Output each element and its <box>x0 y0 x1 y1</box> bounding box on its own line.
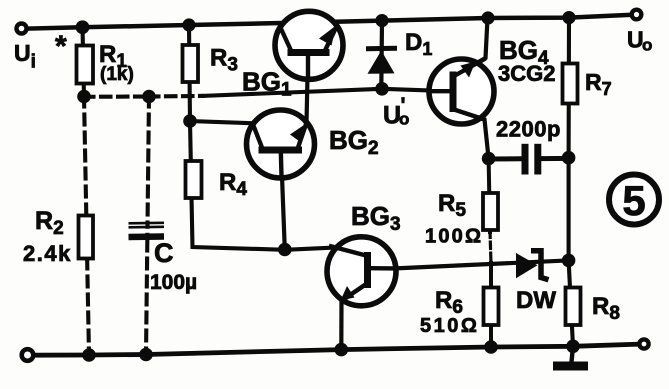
terminal bottom left <box>22 349 34 361</box>
wire 2200p left lead <box>489 156 520 161</box>
node bottom rail R8 <box>566 340 580 354</box>
wire U0' line to D1 and BG4 base <box>203 89 452 96</box>
capacitor 2200p plates <box>525 144 538 175</box>
resistor R5 <box>483 193 498 230</box>
wire BG1 base to BG2 <box>307 53 309 124</box>
svg-text:C: C <box>154 238 174 268</box>
svg-text:o: o <box>399 110 409 129</box>
wire R3 lead <box>189 25 190 121</box>
terminal Uo output <box>632 10 642 20</box>
node bottom rail R2 <box>82 348 96 362</box>
node BG2 base R4 <box>278 243 292 257</box>
svg-text:2200p: 2200p <box>496 117 561 142</box>
svg-text:100µ: 100µ <box>150 271 197 294</box>
resistor R4 <box>186 161 202 198</box>
node R3 R4 <box>183 114 197 128</box>
node bottom rail R6 <box>484 340 498 354</box>
zener diode DW <box>516 251 549 280</box>
svg-text:o: o <box>642 36 652 55</box>
wire R3 junction to BG2 <box>190 121 253 123</box>
node 2200p left <box>482 152 496 166</box>
node 2200p right <box>562 151 576 165</box>
resistor R1 <box>77 46 94 84</box>
wire dashed U0' segment <box>149 94 203 99</box>
svg-text:3CG2: 3CG2 <box>498 61 555 86</box>
node C top <box>142 90 156 104</box>
svg-text:5: 5 <box>622 177 645 224</box>
capacitor C plates <box>129 223 165 237</box>
resistor R2 <box>79 216 94 259</box>
transistor BG2 <box>247 110 315 178</box>
node top rail R7 <box>562 11 575 24</box>
wire 2200p right lead <box>542 156 569 161</box>
wire dashed R2 branch <box>84 97 89 356</box>
wire BG4 collector up <box>455 18 488 75</box>
wire BG4 emitter down <box>455 111 489 159</box>
wire BG3 emitter down <box>339 300 343 350</box>
node bottom rail C <box>139 348 153 362</box>
node bottom rail BG3 <box>335 343 349 357</box>
node top rail BG4 <box>481 11 494 24</box>
wire BG2 base down <box>281 150 285 250</box>
wire BG3 collector line through DW <box>396 260 569 268</box>
node DW cathode <box>562 254 576 268</box>
wire dashed C branch <box>146 97 149 355</box>
wire R4 lead <box>190 121 338 250</box>
wire D1 vertical <box>379 21 384 89</box>
node R1 bottom <box>77 90 91 104</box>
node top rail R1 <box>76 20 90 34</box>
wire R1 top lead <box>83 27 85 96</box>
resistor R8 <box>566 288 581 326</box>
resistor R7 <box>563 64 578 104</box>
terminal Ui input <box>17 24 27 34</box>
resistor R3 <box>183 45 199 82</box>
svg-text:DW: DW <box>516 287 556 314</box>
wire R5 R6 column <box>489 159 490 232</box>
wire bottom rail <box>34 344 638 355</box>
ground <box>553 346 588 370</box>
transistor BG1 <box>275 11 343 79</box>
wire dashed horizontal to C <box>84 94 150 98</box>
figure number 5 <box>609 175 659 225</box>
node top rail R3 <box>182 18 195 31</box>
transistor BG4 <box>429 59 494 125</box>
svg-text:510Ω: 510Ω <box>420 315 479 337</box>
transistor BG3 <box>327 237 396 306</box>
diode D1 <box>366 48 397 74</box>
resistor R6 <box>484 288 499 326</box>
node top rail D1 <box>375 14 388 27</box>
wire top rail <box>28 15 630 29</box>
terminal bottom right <box>639 339 648 348</box>
svg-text:2.4k: 2.4k <box>23 241 72 266</box>
svg-text:*: * <box>55 30 67 63</box>
svg-text:100Ω: 100Ω <box>425 226 483 248</box>
node D1 U0' <box>375 82 389 96</box>
wire R7 R8 column <box>569 18 573 347</box>
svg-text:(1k): (1k) <box>100 64 134 85</box>
